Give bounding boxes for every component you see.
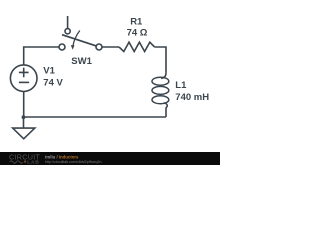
svg-text:R1: R1 [130,16,143,27]
CircuitLab logo orange square [24,161,26,163]
wire right rail bottom [165,108,167,118]
inductor L1 [152,73,169,108]
node A junction dot [22,115,26,119]
svg-text:L1: L1 [175,80,187,91]
ground [13,118,35,139]
footer bar [0,152,220,165]
CircuitLab logo wave [10,161,23,163]
svg-text:SW1: SW1 [71,56,92,67]
svg-text:74 Ω: 74 Ω [127,28,148,39]
svg-text:LAB: LAB [27,160,39,165]
svg-text:V1: V1 [43,65,55,76]
svg-text:tmliu / Inductors: tmliu / Inductors [45,154,79,159]
switch arrow head [71,45,75,50]
wire bottom [24,116,167,118]
wire top-left (V1 top to switch) [24,47,59,65]
svg-text:740 mH: 740 mH [175,92,209,103]
svg-text:http://circuitlab.com/c8dd2pf6: http://circuitlab.com/c8dd2pf6ceq2n [45,160,102,164]
resistor R1 [119,42,155,51]
wire switch to R1 [102,46,119,48]
switch SW1 [59,16,102,50]
voltage source V1 [10,65,37,92]
wire R1 to right rail top [155,47,166,73]
svg-text:74 V: 74 V [43,78,63,89]
wire V1 bottom to node A [23,92,25,118]
